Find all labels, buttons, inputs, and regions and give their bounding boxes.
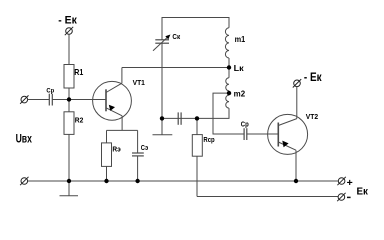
svg-text:VT2: VT2 [306,112,318,121]
capacitor tank bottom [178,112,181,124]
bottom rail [28,180,339,182]
inductor m1 section [225,28,229,58]
label minus [347,196,351,198]
svg-text:Rэ: Rэ [112,144,120,153]
VT2 emitter lead [295,150,297,181]
wire input to Cp [28,99,50,101]
svg-text:- Ек: - Ек [304,70,323,84]
arrowheads [109,35,289,148]
svg-text:Lк: Lк [234,64,245,73]
minus Ek rail [197,196,338,198]
transistor VT1 [93,81,132,120]
svg-text:Ек: Ек [357,187,369,198]
terminal T1 -Ek top left [65,27,73,35]
inductor mid section [226,78,229,91]
terminal T5 plus out [337,177,345,185]
feedback wire m2 tap to Cp2 [213,93,244,134]
ground symbol left [68,181,70,196]
wire T1 to R1 [68,35,70,65]
inductor m2 section [226,95,229,108]
transistor VT2 [268,114,308,154]
coil bottom wire [162,108,229,118]
collector wire to tank [122,67,229,69]
VT1 emitter arrow [109,105,115,111]
svg-text:Rср: Rср [203,135,215,144]
svg-text:Сэ: Сэ [141,145,149,152]
VT1 collector lead [121,68,123,84]
Ck arrow [165,35,170,40]
svg-text:R1: R1 [74,68,83,77]
capacitor Cp2 [244,128,247,140]
VT1 emitter lead [121,116,123,131]
terminal T3 bottom left [20,177,28,185]
wire node to R2 [68,100,70,112]
svg-text:m2: m2 [234,90,246,99]
terminal T6 minus out [337,193,345,201]
resistor Re [106,130,108,143]
wire m1 to Lk tap [228,58,230,78]
resistor R2 [64,112,74,135]
svg-text:+: + [347,177,353,189]
svg-text:Ср: Ср [241,122,249,129]
svg-text:VT1: VT1 [133,78,145,87]
terminal T2 input [20,95,28,103]
capacitor Cp input [49,94,52,106]
terminal T4 -Ek right [293,79,301,87]
svg-text:Ск: Ск [172,32,180,41]
svg-text:m1: m1 [235,35,246,44]
VT2 emitter arrow [282,141,288,148]
wire Cp2 to VT2 base [247,133,278,135]
capacitor Ce [137,130,139,153]
svg-text:Ср: Ср [46,88,54,95]
capacitor Ck variable [155,40,169,43]
svg-text:Uвх: Uвх [16,131,32,145]
ground symbol tank [161,118,163,134]
VT2 collector lead [296,87,298,119]
wire R2 to ground rail [68,134,70,181]
emitter network top wire [107,129,138,131]
resistor Rcp [196,118,198,134]
resistor R1 [64,65,74,89]
wire Cp to VT1 base [52,99,106,101]
tank top wire [162,18,229,40]
svg-text:R2: R2 [75,115,84,124]
svg-text:- Ек: - Ек [58,15,77,27]
wire R1 to base node [68,88,70,100]
